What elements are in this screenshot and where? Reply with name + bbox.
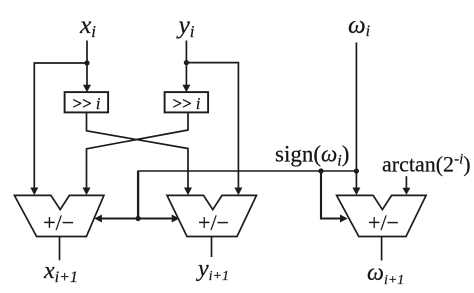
shifter block >>i (right)	[165, 92, 209, 113]
svg-text:sign(ωi): sign(ωi)	[275, 142, 349, 170]
svg-text:+/−: +/−	[43, 210, 74, 235]
junction dot on y_i stem	[184, 60, 189, 65]
svg-text:xi+1: xi+1	[43, 258, 78, 286]
wire y_i+1 output stub	[211, 237, 213, 258]
wire arctan constant into w adder right input	[402, 176, 410, 195]
svg-text:ωi: ωi	[348, 12, 370, 40]
junction dot on x_i stem	[84, 60, 89, 65]
svg-text:yi: yi	[175, 10, 194, 41]
adder/subtractor w (right)	[337, 195, 427, 236]
wire sign(w_i) feedback horizontal from w_i line to left vertical	[138, 170, 356, 172]
svg-text:yi+1: yi+1	[196, 256, 229, 284]
junction dot sign line at w_i stem	[354, 168, 359, 173]
adder/subtractor y (middle)	[167, 195, 257, 236]
wire x_i+1 output stub	[59, 237, 61, 261]
svg-text:xi: xi	[79, 10, 96, 41]
shifter block >>i (left)	[65, 92, 109, 113]
wire sign branch down into w adder side input	[321, 171, 348, 223]
svg-text:>> i: >> i	[72, 94, 101, 113]
junction dot of sign line between x and y adders	[136, 216, 141, 221]
wire x_i branch to left adder left input	[30, 63, 87, 195]
wire w_i+1 output stub	[381, 237, 383, 261]
junction dot sign line branch to w adder	[318, 168, 323, 173]
wire sign into middle adder side input (arrow right)	[138, 215, 179, 223]
svg-text:>> i: >> i	[172, 94, 201, 113]
svg-text:ωi+1: ωi+1	[367, 260, 404, 288]
svg-text:+/−: +/−	[368, 210, 399, 235]
wire w_i vertical stem into w adder	[352, 42, 360, 195]
wire y_i vertical stem into right shifter	[182, 41, 190, 93]
adder/subtractor x (left)	[14, 195, 104, 236]
wire right shifter output crossing to left adder right input	[83, 112, 189, 195]
svg-text:arctan(2-i): arctan(2-i)	[382, 152, 471, 177]
wire y_i branch to middle adder right input	[186, 63, 242, 196]
svg-text:+/−: +/−	[198, 210, 229, 235]
wire x_i vertical stem into left shifter	[83, 41, 91, 93]
wire left shifter output crossing to middle adder left input	[87, 112, 193, 195]
wire sign into left adder side input (arrow left)	[94, 215, 138, 223]
